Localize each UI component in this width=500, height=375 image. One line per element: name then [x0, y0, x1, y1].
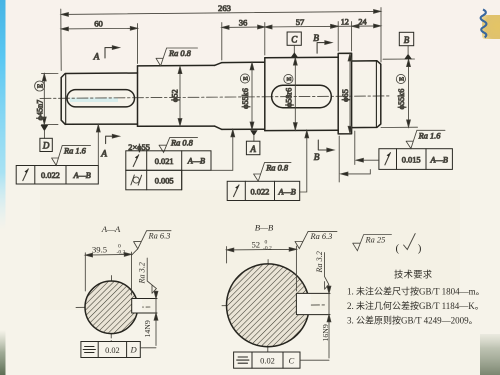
svg-text:ϕ65: ϕ65 [341, 89, 350, 102]
section arrow B top [317, 43, 329, 54]
cyan scan tint in keyway [70, 98, 118, 103]
dimension 57 [265, 25, 338, 28]
taper phi52/phi55 [215, 63, 222, 130]
svg-text:B—B: B—B [255, 223, 274, 233]
roughness Ra1.6 on frame [52, 146, 91, 166]
dimension 60 [61, 27, 137, 30]
roughness Ra25 general [353, 235, 392, 251]
keyway notch [132, 299, 143, 314]
svg-text:A—B: A—B [72, 171, 90, 180]
svg-text:A—B: A—B [187, 157, 205, 166]
svg-text:12: 12 [341, 18, 349, 27]
symmetry frame 0.02 C [234, 352, 300, 368]
section phi58r6 [265, 57, 338, 130]
label phi45n7(E) [35, 81, 45, 120]
svg-text:ϕ55k6: ϕ55k6 [241, 88, 250, 109]
runout symbol [385, 153, 391, 165]
symmetry symbol [237, 357, 249, 363]
label phi52 [171, 89, 180, 102]
datum D triangle [41, 125, 49, 131]
tolerance frame 0.022 A-B middle [227, 181, 300, 200]
roughness Ra3.2 rotated [325, 253, 329, 290]
dimension phi55k6E right [408, 59, 410, 127]
svg-text:Ra 6.3: Ra 6.3 [148, 232, 171, 241]
cylindricity symbol [133, 177, 139, 183]
datum C box [287, 32, 301, 45]
dimension 14N9 [155, 291, 157, 346]
runout symbol [133, 155, 139, 167]
svg-text:ϕ45n7: ϕ45n7 [36, 100, 45, 121]
ext line x351.6 [351, 22, 353, 52]
svg-text:Ra 1.6: Ra 1.6 [418, 132, 442, 141]
section arrow A top [105, 48, 117, 58]
svg-text:E: E [286, 77, 293, 81]
section phi55k6 right [352, 61, 381, 128]
section arrow B bottom [318, 140, 331, 150]
ext line x264.8 [264, 23, 266, 56]
symmetry frame 0.02 D [81, 342, 140, 358]
roughness Ra0.8 on frame [254, 163, 291, 182]
dimension phi45n7E [43, 74, 45, 125]
keyway slot right (phi58) [272, 85, 332, 108]
dimension 52 0/-0.2 [227, 246, 297, 291]
datum B box [399, 32, 413, 45]
svg-text:A: A [93, 52, 100, 62]
svg-text:0.022: 0.022 [41, 171, 60, 180]
leader to collar right face [357, 159, 379, 161]
datum C triangle [293, 45, 295, 53]
svg-text:Ra 0.8: Ra 0.8 [168, 49, 192, 58]
svg-text:Ra 3.2: Ra 3.2 [315, 251, 324, 273]
leader frame to keyway [300, 359, 329, 361]
svg-text:52: 52 [252, 239, 261, 249]
svg-text:ϕ52: ϕ52 [171, 89, 180, 102]
svg-text:E: E [36, 84, 44, 88]
bottom-right scan shadow [480, 334, 500, 375]
svg-text:Ra 6.3: Ra 6.3 [310, 232, 333, 241]
svg-text:A—B: A—B [277, 187, 295, 196]
svg-text:E: E [243, 76, 250, 80]
svg-text:B: B [404, 35, 410, 45]
ext line collar right face [354, 131, 356, 165]
svg-text:0.02: 0.02 [260, 356, 275, 365]
svg-text:24: 24 [358, 18, 366, 27]
svg-text:ϕ58r6: ϕ58r6 [284, 88, 293, 107]
svg-text:A: A [249, 144, 256, 154]
ext line x338.2 [337, 22, 339, 52]
leader to phi45 surface [97, 127, 99, 166]
roughness Ra0.8 on phi52 [156, 48, 198, 66]
svg-text:14N9: 14N9 [143, 320, 152, 337]
datum D box [40, 138, 52, 151]
dimension phi52 [179, 66, 181, 126]
section phi45 [61, 73, 137, 124]
centerline (axis) [40, 96, 391, 99]
svg-text:Ra 0.8: Ra 0.8 [265, 164, 289, 173]
keyway notch [296, 293, 311, 314]
label phi65 [341, 89, 350, 102]
collar phi65 [338, 53, 351, 134]
svg-text:16N9: 16N9 [321, 324, 330, 341]
dimension 16N9 [328, 286, 330, 359]
roughness Ra3.2 rotated [147, 258, 156, 293]
ext line x137.5 [137, 24, 139, 64]
svg-text:C: C [291, 35, 298, 45]
symmetry symbol [83, 347, 95, 353]
dimension 12 (arrows outside) [330, 25, 359, 27]
roughness Ra6.3 [132, 231, 172, 256]
ext line x221.8 [221, 23, 223, 61]
leader to phi55 surface [211, 132, 233, 171]
svg-text:B: B [313, 34, 319, 44]
tolerance frame 0.015 A-B right [379, 149, 453, 170]
svg-text:57: 57 [296, 17, 305, 27]
blue squiggle on gold patch [481, 10, 487, 38]
bottom-left green slide border [0, 330, 6, 375]
label phi58r6(E) [284, 74, 294, 107]
leader to collar left face [342, 170, 370, 174]
section arrow A bottom [106, 136, 117, 143]
leader frame to keyway [140, 347, 156, 349]
datum A box [246, 141, 260, 155]
svg-text:-0.2: -0.2 [263, 246, 272, 252]
svg-text:60: 60 [94, 19, 103, 29]
svg-text:0.02: 0.02 [105, 346, 120, 355]
tolerance frame 0.021/0.005 A-B [126, 151, 211, 190]
svg-text:263: 263 [218, 3, 231, 13]
dimension phi55k6E left [251, 62, 253, 129]
step phi55/phi58 [264, 58, 266, 131]
svg-text:39.5: 39.5 [92, 244, 107, 254]
hatched circle [227, 264, 310, 347]
roughness Ra6.3 [295, 231, 337, 248]
section phi55k6 left [222, 62, 265, 129]
ext line collar left face [338, 136, 340, 182]
svg-text:A: A [100, 149, 107, 159]
roughness Ra1.6 on frame [406, 130, 445, 148]
svg-text:Ra 0.8: Ra 0.8 [170, 139, 194, 148]
svg-text:B: B [314, 153, 320, 163]
svg-text:Ra 1.6: Ra 1.6 [63, 146, 87, 155]
svg-text:A—A: A—A [101, 224, 121, 234]
step phi45/phi52 [137, 66, 139, 126]
svg-text:1. 未注公差尺寸按GB/T 1804—m。: 1. 未注公差尺寸按GB/T 1804—m。 [347, 286, 485, 297]
leader to phi58 surface [300, 133, 307, 192]
dimension phi65 [349, 54, 351, 134]
svg-text:): ) [418, 243, 422, 255]
svg-text:Ra 3.2: Ra 3.2 [138, 262, 147, 284]
svg-text:3. 公差原则按GB/T 4249—2009。: 3. 公差原则按GB/T 4249—2009。 [347, 314, 478, 325]
dimension 39.5 0/-0.2 [85, 252, 131, 295]
svg-text:A—B: A—B [430, 155, 448, 164]
chamfer ring edge right end [375, 61, 377, 127]
svg-text:0.005: 0.005 [155, 177, 174, 186]
datum B triangle [407, 46, 409, 54]
keyway slot left (phi45) [67, 90, 135, 107]
svg-text:0.021: 0.021 [155, 157, 174, 166]
crosshair centerlines [76, 276, 150, 342]
svg-text:(: ( [396, 243, 400, 255]
ext lines right phi55k6 [381, 59, 418, 128]
dimension 263 [61, 11, 381, 14]
label phi55k6(E) right [396, 74, 406, 109]
svg-text:D: D [42, 141, 50, 151]
top-right gold clip-art patch [482, 15, 500, 39]
svg-text:Ra 25: Ra 25 [365, 236, 386, 245]
label phi55k6(E) left [240, 74, 250, 109]
ext line right end x381 [380, 8, 382, 63]
section phi52 [138, 65, 215, 126]
tolerance frame 0.022 A-B left [16, 166, 98, 185]
svg-text:技术要求: 技术要求 [394, 269, 432, 281]
svg-text:0.022: 0.022 [250, 188, 269, 197]
ext line left end x60.6 [60, 9, 62, 71]
svg-text:0.015: 0.015 [402, 156, 421, 165]
dimension 24 [352, 25, 381, 27]
hatched circle [85, 281, 138, 334]
dimension phi58r6E [294, 58, 296, 130]
datum A triangle [250, 130, 257, 136]
dimension 36 [222, 26, 265, 28]
shaft outline [61, 53, 381, 134]
svg-text:E: E [399, 77, 406, 81]
svg-text:C: C [289, 355, 295, 365]
runout symbol [234, 185, 240, 197]
svg-text:36: 36 [239, 18, 248, 28]
svg-text:2. 未注几何公差按GB/T 1184—K。: 2. 未注几何公差按GB/T 1184—K。 [347, 300, 484, 311]
crosshair centerlines [222, 260, 327, 352]
runout symbol [23, 169, 29, 181]
svg-text:D: D [129, 345, 137, 355]
svg-text:-0.2: -0.2 [117, 250, 126, 256]
svg-text:ϕ55k6: ϕ55k6 [397, 89, 406, 110]
left cyan slide border [0, 0, 6, 230]
ext lines for phi45 dim [42, 74, 59, 125]
